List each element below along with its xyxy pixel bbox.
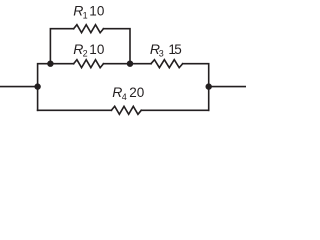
resistor R1	[74, 25, 104, 33]
node dot left R1/R2 junction	[47, 61, 53, 67]
svg-text:20: 20	[129, 85, 144, 100]
svg-text:1: 1	[83, 10, 88, 20]
label R4 20	[112, 84, 144, 102]
wire bottom rail left	[38, 109, 112, 111]
node A dot	[34, 83, 40, 89]
node dot right R1/R2 junction	[127, 61, 133, 67]
svg-text:2: 2	[83, 49, 88, 59]
resistor R3	[151, 60, 183, 68]
wire bottom rail right	[141, 109, 208, 111]
svg-text:0: 0	[97, 4, 105, 19]
wire R3 to right vertical	[183, 64, 209, 111]
label R2 10	[73, 41, 104, 59]
svg-text:1: 1	[89, 4, 97, 19]
node B dot	[206, 83, 212, 89]
wire left lead	[0, 86, 38, 88]
resistor R4	[111, 106, 141, 114]
svg-text:5: 5	[174, 42, 182, 57]
svg-text:1: 1	[89, 42, 97, 57]
wire R1 branch right vertical	[103, 29, 130, 64]
wire R2 to R3	[103, 63, 151, 65]
wire R1 branch left vertical	[50, 29, 73, 64]
svg-text:0: 0	[97, 42, 105, 57]
label R1 10	[73, 3, 104, 21]
wire R2 lead-in	[50, 63, 73, 65]
label R3 15	[150, 41, 182, 59]
wire left vertical (node A column)	[38, 64, 51, 111]
resistor R2	[74, 60, 104, 68]
svg-text:4: 4	[122, 92, 127, 102]
svg-text:3: 3	[159, 49, 164, 59]
wire right lead	[209, 86, 246, 88]
